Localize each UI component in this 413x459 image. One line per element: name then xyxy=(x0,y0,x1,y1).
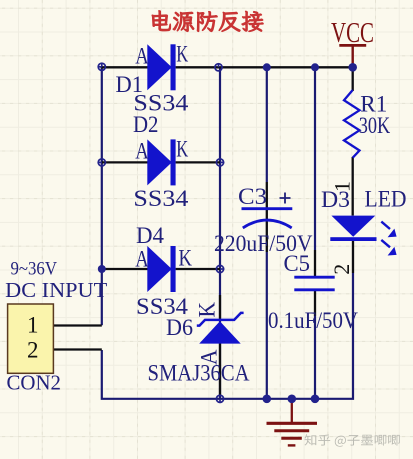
svg-text:K: K xyxy=(195,302,220,318)
svg-text:1: 1 xyxy=(27,313,39,338)
svg-text:A: A xyxy=(135,44,149,69)
svg-text:LED: LED xyxy=(365,187,407,212)
svg-text:D4: D4 xyxy=(136,223,164,248)
svg-text:K: K xyxy=(176,137,188,162)
svg-text:A: A xyxy=(135,247,149,272)
svg-text:C3: C3 xyxy=(238,184,267,209)
svg-text:K: K xyxy=(176,42,188,67)
svg-text:D6: D6 xyxy=(166,315,193,340)
svg-text:A: A xyxy=(197,349,222,365)
svg-text:0.1uF/50V: 0.1uF/50V xyxy=(268,308,358,333)
svg-text:9~36V: 9~36V xyxy=(11,259,58,280)
svg-text:VCC: VCC xyxy=(331,18,374,49)
svg-text:30K: 30K xyxy=(359,113,391,138)
svg-text:1: 1 xyxy=(329,181,354,192)
svg-text:D2: D2 xyxy=(133,112,159,137)
svg-text:CON2: CON2 xyxy=(7,370,62,394)
svg-text:SS34: SS34 xyxy=(133,186,189,211)
svg-text:A: A xyxy=(135,139,149,164)
svg-text:K: K xyxy=(179,245,193,270)
svg-text:2: 2 xyxy=(329,264,354,275)
svg-text:DC INPUT: DC INPUT xyxy=(5,278,107,302)
svg-text:2: 2 xyxy=(27,338,39,363)
svg-text:C5: C5 xyxy=(284,251,311,276)
